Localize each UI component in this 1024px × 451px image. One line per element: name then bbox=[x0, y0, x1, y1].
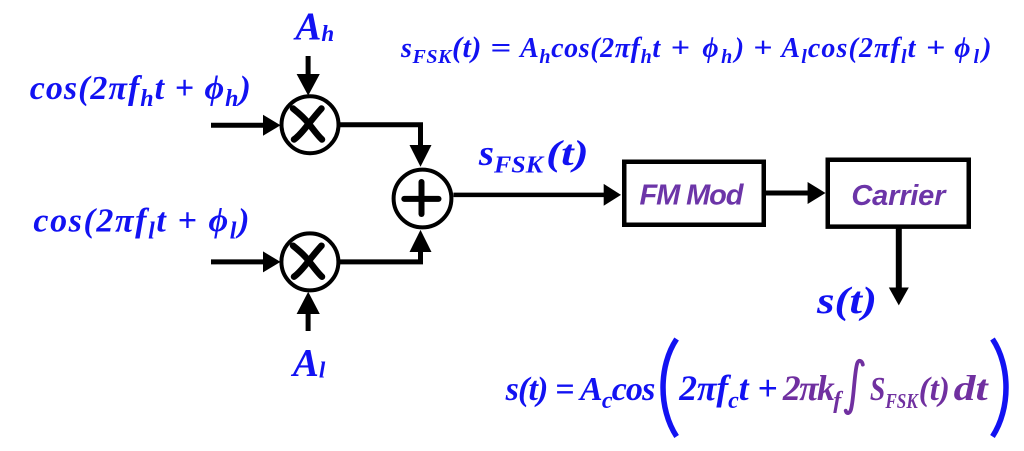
svg-text:Ah: Ah bbox=[292, 5, 334, 48]
formula bottom: s(t) = Ac cos( 2pi fc t + 2pi kf integral SFSK(t) dt ) bbox=[505, 339, 1006, 437]
svg-text:Alcos(2πflt: Alcos(2πflt bbox=[779, 33, 916, 68]
wire FM Mod to Carrier bbox=[766, 182, 826, 204]
adder S1 bbox=[394, 170, 452, 228]
wire input arrow into bottom multiplier bbox=[211, 251, 281, 272]
svg-text:ϕh): ϕh) bbox=[702, 33, 744, 68]
multiplier M2 (bottom) bbox=[281, 233, 338, 290]
svg-text:s(t): s(t) bbox=[816, 280, 877, 322]
svg-text:sFSK(t): sFSK(t) bbox=[400, 31, 481, 68]
svg-text:Al: Al bbox=[290, 342, 326, 385]
wire input arrow into top multiplier bbox=[211, 115, 281, 136]
svg-text:cos(2πflt + ϕl): cos(2πflt + ϕl) bbox=[33, 203, 249, 245]
svg-text:+: + bbox=[753, 33, 772, 64]
svg-text:=: = bbox=[490, 33, 511, 64]
wire adder to FM Mod box bbox=[453, 184, 621, 206]
svg-text:(t): (t) bbox=[546, 133, 589, 173]
wire Carrier down output arrow bbox=[889, 227, 909, 305]
svg-text:2πfct +: 2πfct + bbox=[678, 368, 777, 414]
svg-text:dt: dt bbox=[954, 368, 989, 408]
block Carrier bbox=[828, 160, 969, 227]
wire from M2 up to adder bbox=[339, 230, 432, 262]
big right paren bbox=[993, 339, 1007, 437]
svg-text:SFSK: SFSK bbox=[870, 371, 920, 413]
svg-text:+: + bbox=[671, 33, 690, 64]
svg-text:ϕl): ϕl) bbox=[954, 33, 991, 68]
svg-text:cos(2πfht + ϕh): cos(2πfht + ϕh) bbox=[30, 70, 251, 112]
wire Al up arrow into M2 bbox=[297, 292, 320, 331]
svg-text:2πkf: 2πkf bbox=[782, 368, 843, 414]
svg-text:Carrier: Carrier bbox=[851, 180, 947, 212]
wire from M1 to adder bbox=[339, 125, 432, 167]
integral sign bbox=[846, 361, 863, 413]
svg-text:FM Mod: FM Mod bbox=[640, 180, 745, 212]
svg-text:s(t) = Accos: s(t) = Accos bbox=[505, 371, 656, 414]
svg-text:sFSK: sFSK bbox=[478, 133, 545, 179]
svg-text:Ahcos(2πfht: Ahcos(2πfht bbox=[518, 33, 661, 68]
svg-text:(t): (t) bbox=[919, 371, 950, 408]
svg-text:+: + bbox=[926, 33, 945, 64]
block FM Mod bbox=[624, 162, 764, 225]
multiplier M1 (top) bbox=[282, 96, 339, 153]
big left paren bbox=[663, 339, 677, 437]
wire Ah down arrow into multiplier M1 bbox=[297, 56, 320, 96]
formula top: sFSK(t) = Ah cos(2pi fh t + phi h) + Al cos(2pi fl t + phi l) bbox=[400, 31, 991, 68]
